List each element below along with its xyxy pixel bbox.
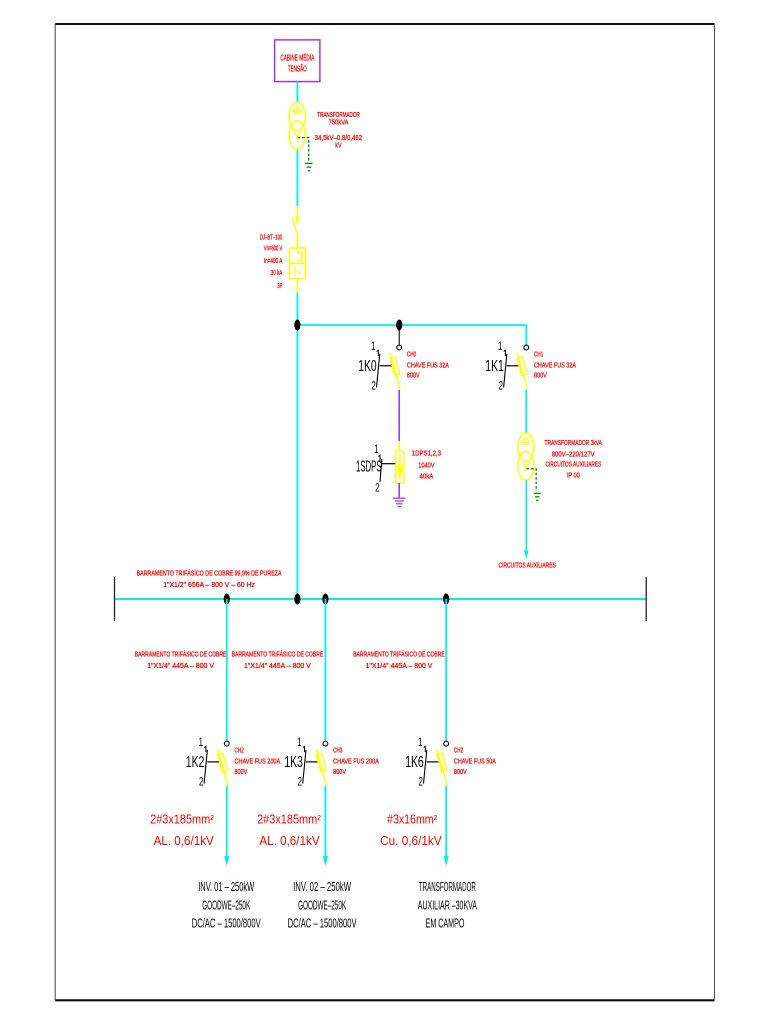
svg-text:1"X1/2" 656A – 800 V – 60 Hz: 1"X1/2" 656A – 800 V – 60 Hz (163, 580, 255, 589)
svg-text:TRANSFORMADOR: TRANSFORMADOR (419, 880, 476, 894)
svg-text:GOODWE–250K: GOODWE–250K (298, 898, 346, 912)
svg-text:CIRCUITOS AUXILIARES: CIRCUITOS AUXILIARES (499, 560, 556, 569)
svg-text:1: 1 (199, 737, 204, 749)
svg-text:1: 1 (498, 341, 503, 353)
svg-text:AL. 0,6/1kV: AL. 0,6/1kV (154, 833, 214, 848)
svg-text:BARRAMENTO TRIFÁSICO DE COBRE: BARRAMENTO TRIFÁSICO DE COBRE (353, 649, 445, 658)
svg-text:1DPS1,2,3: 1DPS1,2,3 (412, 449, 441, 458)
svg-text:INV. 01 – 250kW: INV. 01 – 250kW (198, 880, 254, 894)
svg-text:CIRCUITOS AUXILIARES: CIRCUITOS AUXILIARES (545, 459, 601, 468)
svg-text:BARRAMENTO TRIFÁSICO DE COBRE: BARRAMENTO TRIFÁSICO DE COBRE (232, 649, 324, 658)
svg-text:2: 2 (371, 381, 376, 393)
svg-text:AL. 0,6/1kV: AL. 0,6/1kV (259, 833, 319, 848)
svg-text:1: 1 (418, 737, 423, 749)
svg-text:1"X1/4" 445A – 800 V: 1"X1/4" 445A – 800 V (147, 661, 214, 670)
svg-text:BARRAMENTO TRIFÁSICO DE COBRE: BARRAMENTO TRIFÁSICO DE COBRE (135, 649, 227, 658)
svg-text:TRANSFORMADOR 3kVA: TRANSFORMADOR 3kVA (545, 438, 602, 447)
svg-text:CHAVE FUS 50A: CHAVE FUS 50A (454, 757, 496, 766)
svg-text:1"X1/4" 445A – 800 V: 1"X1/4" 445A – 800 V (366, 661, 433, 670)
svg-text:kV: kV (335, 140, 341, 149)
svg-text:750kVA: 750kVA (329, 118, 349, 127)
svg-text:30 kA: 30 kA (271, 268, 283, 277)
svg-text:800V: 800V (333, 767, 346, 776)
svg-text:800V: 800V (407, 371, 420, 380)
svg-text:800V–220/127V: 800V–220/127V (552, 449, 595, 458)
svg-text:2: 2 (498, 381, 503, 393)
svg-text:800V: 800V (454, 767, 467, 776)
svg-text:800V: 800V (235, 767, 248, 776)
svg-text:3P: 3P (277, 281, 282, 290)
svg-text:CHAVE FUS 32A: CHAVE FUS 32A (407, 360, 449, 369)
svg-text:DC/AC – 1500/800V: DC/AC – 1500/800V (192, 916, 261, 930)
svg-text:CH2: CH2 (235, 746, 244, 755)
svg-text:2: 2 (375, 483, 380, 495)
svg-text:Vn=800 V: Vn=800 V (264, 243, 283, 252)
svg-text:800V: 800V (534, 371, 547, 380)
svg-text:1K3: 1K3 (284, 754, 303, 771)
svg-text:CH1: CH1 (534, 350, 543, 359)
svg-text:EM CAMPO: EM CAMPO (426, 916, 465, 930)
svg-text:2: 2 (199, 777, 204, 789)
svg-text:DC/AC – 1500/800V: DC/AC – 1500/800V (288, 916, 357, 930)
svg-text:CH2: CH2 (454, 746, 463, 755)
svg-text:2#3x185mm²: 2#3x185mm² (150, 811, 214, 826)
svg-text:2#3x185mm²: 2#3x185mm² (257, 811, 321, 826)
svg-text:1: 1 (371, 341, 376, 353)
svg-text:DJ–BT–100: DJ–BT–100 (260, 232, 282, 241)
svg-text:CH3: CH3 (333, 746, 342, 755)
svg-text:1: 1 (297, 737, 302, 749)
svg-text:GOODWE–250K: GOODWE–250K (202, 898, 250, 912)
svg-text:INV. 02 – 250kW: INV. 02 – 250kW (293, 880, 351, 894)
svg-text:1040V: 1040V (418, 461, 434, 470)
svg-text:AUXILIAR –30KVA: AUXILIAR –30KVA (418, 898, 478, 912)
svg-text:40kA: 40kA (420, 471, 434, 480)
svg-text:Cu. 0,6/1kV: Cu. 0,6/1kV (380, 833, 442, 848)
svg-text:IP 00: IP 00 (567, 470, 580, 479)
svg-text:BARRAMENTO TRIFÁSICO DE COBRE: BARRAMENTO TRIFÁSICO DE COBRE 99,9% DE P… (137, 568, 282, 577)
svg-text:CHAVE FUS 200A: CHAVE FUS 200A (235, 757, 281, 766)
svg-text:CH0: CH0 (407, 350, 416, 359)
svg-text:CHAVE FUS 32A: CHAVE FUS 32A (534, 360, 576, 369)
svg-text:TENSÃO: TENSÃO (288, 64, 307, 73)
svg-text:1SDPS: 1SDPS (356, 458, 382, 475)
svg-text:1"X1/4" 445A – 800 V: 1"X1/4" 445A – 800 V (244, 661, 311, 670)
svg-text:2: 2 (298, 777, 303, 789)
svg-text:2: 2 (418, 777, 423, 789)
svg-text:1K6: 1K6 (405, 754, 424, 771)
svg-text:CABINE MÉDIA: CABINE MÉDIA (280, 53, 314, 62)
svg-text:CHAVE FUS 200A: CHAVE FUS 200A (333, 757, 379, 766)
svg-text:In=400 A: In=400 A (264, 256, 283, 265)
svg-text:1K2: 1K2 (186, 754, 205, 771)
svg-text:1: 1 (374, 444, 379, 456)
svg-text:1K0: 1K0 (358, 358, 377, 375)
svg-text:1K1: 1K1 (485, 358, 504, 375)
svg-text:#3x16mm²: #3x16mm² (387, 811, 438, 826)
